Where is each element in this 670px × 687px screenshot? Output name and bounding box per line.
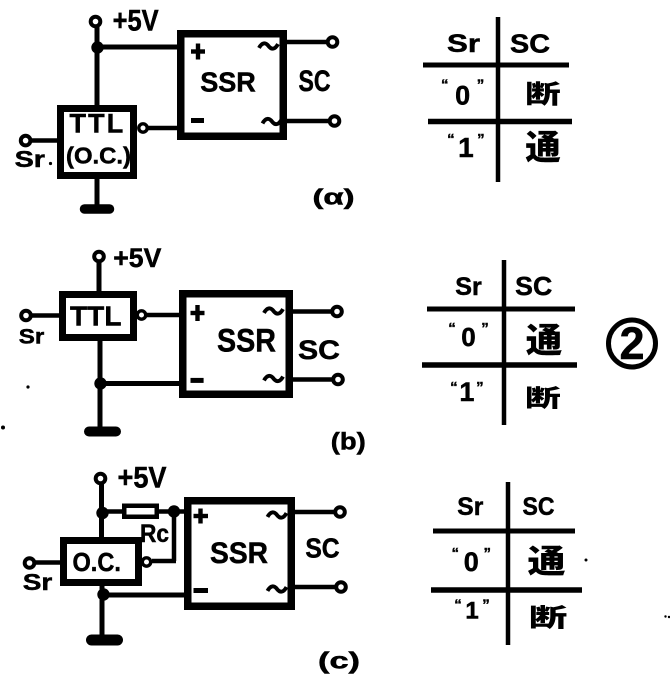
svg-text:SSR: SSR [200,66,256,97]
ground circuit b [98,420,103,432]
wire TTL to ground circuit b [98,341,103,427]
table cell character &#x901A; [526,324,562,356]
pin - circuit b [191,378,204,383]
table cell character &#x65AD; [527,81,560,106]
svg-text:“: “ [441,77,449,94]
table b horizontal rule 2 [422,362,577,368]
output terminal bottom circuit b [333,375,343,385]
pin ~ top circuit c [268,512,287,517]
svg-text:”: ” [477,77,485,94]
svg-text:”: ” [482,597,490,614]
svg-text:1: 1 [459,377,474,407]
svg-text:(O.C.): (O.C.) [66,143,131,169]
pin - circuit c [194,588,209,593]
pin + circuit a [191,49,205,53]
svg-text:Sr: Sr [23,569,53,595]
svg-text:TTL: TTL [70,301,122,332]
junction node Rc output circuit c [168,505,180,517]
svg-text:SSR: SSR [217,323,276,359]
scan speck [1,426,5,430]
svg-text:SC: SC [515,271,552,301]
svg-text:(α): (α) [313,185,355,210]
wire O.C. to ground circuit c [100,586,105,636]
svg-text:Sr: Sr [15,146,45,172]
gate U3 TTL box circuit b [63,295,134,338]
svg-text:(c): (c) [318,648,360,674]
output bubble circuit c [142,558,150,566]
svg-text:Sr: Sr [457,493,483,521]
wire resistor to SSR plus circuit c [159,509,188,514]
svg-text:0: 0 [455,81,470,111]
svg-text:+5V: +5V [113,243,161,273]
pin - circuit a [191,118,204,123]
scan speck [26,385,29,388]
svg-text:Rc: Rc [140,520,169,548]
wire ground rail to SSR minus circuit b [100,381,181,386]
scan speck [585,559,588,562]
table cell character &#x901A; [526,131,561,163]
table c horizontal rule 2 [431,587,582,593]
svg-text:SC: SC [523,493,555,521]
pin ~ bottom circuit a [263,119,282,124]
pin ~ bottom circuit b [264,376,283,381]
svg-text:SSR: SSR [210,537,268,570]
svg-text:”: ” [481,320,489,337]
output bubble circuit b [137,311,145,319]
wire pull-up drop circuit c [172,512,177,562]
svg-text:“: “ [447,131,455,148]
wire Sr input circuit a [31,138,57,143]
relay U4 SSR box circuit b [183,294,290,395]
table c horizontal rule 1 [433,529,575,534]
svg-text:O.C.: O.C. [72,547,120,577]
wire SSR AC output top circuit b [293,309,331,314]
figure number circle 2 [609,318,656,369]
svg-text:(b): (b) [331,429,366,456]
gate U1 TTL (O.C.) box circuit a [61,109,134,176]
svg-text:SC: SC [305,533,339,564]
svg-text:“: “ [454,597,462,614]
output terminal bottom circuit c [336,582,346,592]
wire +5V to SSR plus input circuit a [97,45,181,50]
table b horizontal rule 1 [427,307,575,312]
ground circuit c [100,630,105,640]
power terminal +5V circuit c [96,474,106,484]
wire TTL output to SSR plus input circuit b [146,313,181,318]
ground circuit a [95,179,100,209]
svg-text:1: 1 [458,132,474,163]
junction node circuit a [91,41,103,53]
wire ground rail to SSR minus circuit c [102,593,188,598]
wire +5V vertical drop circuit b [97,260,102,292]
wire TTL output to SSR minus input circuit a [148,126,181,131]
pin ~ top circuit b [264,308,283,313]
power terminal +5V circuit b [94,252,104,262]
input terminal Sr circuit b [21,311,31,321]
table b vertical rule [502,260,507,425]
power terminal +5V circuit a [91,17,101,27]
table a vertical rule [496,17,501,182]
table cell character &#x65AD; [527,386,560,409]
svg-text:“: “ [448,320,456,337]
svg-text:“: “ [452,545,460,562]
wire O.C. output to pull-up circuit c [152,559,176,564]
junction node circuit b [94,377,106,389]
open-collector output bubble circuit a [139,124,147,132]
svg-text:2: 2 [619,318,644,369]
wire +5V to resistor Rc circuit c [102,509,123,514]
wire SSR AC output bottom circuit c [295,585,335,590]
output terminal top circuit a [328,37,338,47]
wire SSR AC output top circuit c [295,510,334,515]
table a horizontal rule 1 [423,63,569,68]
svg-text:“: “ [450,379,458,396]
wire SSR AC output top circuit a [287,40,327,45]
svg-text:1: 1 [465,598,478,625]
junction node ground rail circuit c [97,588,109,600]
pin ~ bottom circuit c [268,586,287,591]
table cell character &#x901A; [528,545,565,575]
svg-text:”: ” [484,545,492,562]
wire SSR AC output bottom circuit a [287,119,329,124]
svg-text:SC: SC [298,335,340,365]
wire +5V vertical drop circuit c [99,482,104,539]
table cell character &#x65AD; [531,605,566,629]
scan speck [668,616,670,618]
resistor Rc circuit c [124,506,157,517]
svg-text:SC: SC [299,65,331,98]
svg-text:+5V: +5V [113,5,159,38]
table c vertical rule [506,482,511,645]
junction node pull-up circuit c [96,507,108,519]
wire SSR AC output bottom circuit b [293,377,332,382]
svg-text:TTL: TTL [70,109,124,139]
scan speck [664,615,666,617]
wire +5V vertical drop circuit a [95,25,100,107]
relay U6 SSR box circuit c [188,501,292,607]
gate U5 O.C. box circuit c [64,541,139,583]
pin ~ top circuit a [259,43,278,48]
scan speck [49,162,52,165]
pin + circuit b [191,311,205,315]
output terminal top circuit c [335,507,345,517]
svg-text:”: ” [477,131,485,148]
output terminal bottom circuit a [330,116,340,126]
svg-text:0: 0 [461,322,475,352]
svg-text:Sr: Sr [19,325,45,348]
svg-text:SC: SC [510,29,550,59]
table a horizontal rule 2 [428,119,572,125]
svg-text:”: ” [476,379,484,396]
wire Sr input circuit c [35,560,60,565]
relay U2 SSR box circuit a [181,34,284,137]
svg-text:+5V: +5V [118,462,167,495]
input terminal Sr circuit a [21,136,31,146]
wire Sr input circuit b [31,313,59,318]
input terminal Sr circuit c [25,558,35,568]
svg-text:Sr: Sr [447,30,480,58]
svg-text:0: 0 [464,547,479,577]
output terminal top circuit b [332,307,342,317]
svg-text:Sr: Sr [455,273,482,301]
pin + circuit c [194,514,209,518]
